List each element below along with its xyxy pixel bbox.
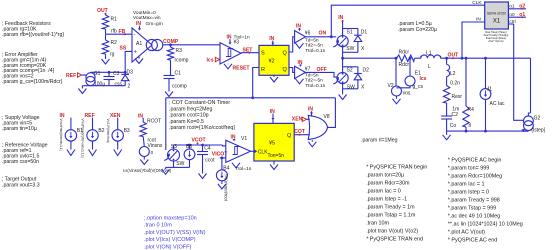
buffer U6 params: [305, 37, 326, 54]
svg-text:Ics: Ics: [207, 57, 214, 63]
ground below V1: [232, 163, 240, 168]
resistor Rdcr: [394, 49, 421, 67]
svg-text:B2: B2: [98, 128, 104, 134]
comment text: Feedback Resistors params: [2, 21, 64, 38]
svg-text:SET: SET: [243, 47, 254, 53]
wire switch node to S2: [342, 58, 344, 67]
svg-text:.param Co=220µ: .param Co=220µ: [398, 27, 437, 33]
svg-text:Rdcr: Rdcr: [399, 62, 410, 68]
wire Q to buffer U6: [289, 37, 295, 52]
svg-text:.tran 10m: .tran 10m: [366, 220, 389, 226]
switch S2 control curl: [333, 77, 339, 84]
wire OUT to J1: [484, 57, 487, 89]
simulation directives text: [144, 215, 206, 250]
svg-text:.param g_cs={100m/Rdcr}: .param g_cs={100m/Rdcr}: [2, 79, 63, 85]
wire L1 to OUT rail: [441, 57, 531, 59]
svg-text:R3: R3: [176, 48, 183, 54]
resistor Resr: [443, 86, 462, 113]
svg-text:Ics: Ics: [420, 76, 427, 82]
comparator U3 power stub: [228, 39, 231, 44]
ground below U2: [270, 75, 278, 82]
source B5 expression: [123, 168, 172, 173]
node COT wire: [294, 129, 310, 136]
inductor L2: [447, 65, 461, 87]
svg-text:IN: IN: [138, 113, 143, 119]
svg-text:vos: vos: [403, 90, 411, 96]
buffer U7: [295, 66, 311, 78]
wire OUT to R1: [105, 14, 107, 15]
wire V8 out to RESET rail: [328, 98, 336, 128]
svg-text:V8: V8: [324, 114, 330, 120]
svg-text:OUT: OUT: [97, 8, 109, 14]
svg-text:¥5: ¥5: [269, 141, 275, 147]
svg-text:V2: V2: [388, 83, 394, 89]
svg-text:REF: REF: [66, 73, 76, 79]
svg-text:VCOT: VCOT: [192, 137, 207, 143]
port XEN to V8: [292, 117, 310, 123]
source B1: [65, 118, 83, 150]
resistor R2: [102, 40, 117, 58]
svg-text:.plot V(ON) V(OFF): .plot V(ON) V(OFF): [144, 245, 192, 250]
voltage source Vinsns: [139, 147, 153, 157]
ground below Vinsns: [140, 157, 148, 165]
buffer U7 labels: [298, 60, 303, 67]
wire RESET to S3 control: [165, 98, 167, 150]
ground below S3 bracket: [162, 167, 174, 174]
svg-text:* PyQSPICE AC begin: * PyQSPICE AC begin: [448, 157, 502, 163]
svg-text:XEN: XEN: [292, 117, 303, 123]
wire ground rail: [447, 130, 529, 133]
node OFF wire: [305, 67, 337, 77]
svg-text:.param Tready = 1m: .param Tready = 1m: [366, 204, 415, 210]
svg-text:¥6: ¥6: [305, 30, 311, 36]
current source B4: [216, 158, 229, 182]
svg-text:ON: ON: [319, 31, 327, 37]
svg-text:SS: SS: [120, 46, 127, 52]
svg-text:css: css: [115, 82, 123, 88]
source B4 expression: [224, 174, 229, 201]
svg-text:2: 2: [128, 84, 131, 90]
svg-text:S1: S1: [347, 30, 353, 36]
wire IN to S1: [342, 21, 344, 29]
svg-text:ccot: ccot: [205, 158, 215, 164]
svg-text:{Istep}: {Istep}: [531, 128, 546, 134]
svg-text:XEN: XEN: [110, 113, 121, 119]
current source G2: [524, 115, 546, 133]
svg-text:rg: rg: [110, 52, 115, 58]
sampler X1: [485, 2, 509, 29]
source B1 expression: [59, 119, 63, 151]
pin ctrl wire: [508, 19, 515, 25]
svg-text:.param ccot=10p: .param ccot=10p: [169, 113, 209, 119]
comment text: COT Constant-ON Timer: [169, 100, 235, 131]
PyQSPICE AC text column: [448, 157, 523, 243]
svg-text:o0: o0: [509, 12, 515, 18]
wire FB to A1 inverting input: [106, 33, 133, 35]
svg-text:Td2=-5n: Td2=-5n: [305, 78, 323, 84]
svg-text:+: +: [134, 50, 138, 56]
comment text: Error Amplifier params: [2, 52, 63, 85]
svg-text:.plot V(OUT) V(SS) V(IN): .plot V(OUT) V(SS) V(IN): [144, 230, 206, 236]
svg-text:**.ac lin {1024*1024} 10 10Meg: **.ac lin {1024*1024} 10 10Meg: [448, 221, 523, 227]
wire RCOT to Vinsns: [143, 137, 163, 150]
wire RESET to R pin: [253, 68, 259, 98]
svg-text:.tran 0 10m: .tran 0 10m: [144, 223, 172, 229]
wire R3 to C1: [170, 60, 172, 76]
svg-text:IN: IN: [269, 36, 274, 42]
wire soft-start bottom rail: [82, 84, 125, 86]
svg-text:*.param Rdcr=100Meg: *.param Rdcr=100Meg: [448, 173, 502, 179]
source B3 expression: [106, 119, 110, 143]
ground below B4: [218, 182, 226, 189]
ground below B3: [114, 150, 122, 156]
svg-text:¥3: ¥3: [234, 39, 240, 45]
SR latch U2: [259, 45, 289, 75]
svg-text:VoutMin=0: VoutMin=0: [133, 10, 156, 16]
current source G1: [86, 71, 105, 88]
svg-text:o1: o1: [509, 4, 515, 10]
svg-text:S2: S2: [347, 68, 353, 74]
svg-text:V1: V1: [241, 136, 247, 142]
wire G2 to ground rail: [521, 129, 528, 133]
wire E1 to V2: [397, 86, 411, 88]
wire ctrl to G2 control: [514, 24, 524, 120]
svg-text:C2: C2: [452, 112, 459, 118]
svg-text:A1: A1: [136, 41, 142, 47]
svg-text:D2: D2: [363, 68, 370, 74]
ground below R2: [102, 57, 110, 64]
svg-text:SW: SW: [346, 46, 354, 52]
svg-text:.param rl=1Meg: .param rl=1Meg: [361, 137, 398, 143]
svg-text:Q: Q: [283, 51, 288, 57]
op-amp A1 labels: [133, 10, 163, 27]
svg-text:I=Ko*vout/rcot: I=Ko*vout/rcot: [224, 174, 229, 201]
svg-text:R4: R4: [468, 107, 475, 113]
svg-text:Vinsns: Vinsns: [148, 143, 163, 149]
ground below U5: [270, 161, 278, 170]
svg-text:Td=5n: Td=5n: [305, 37, 319, 43]
node IN above RCOT: [138, 113, 143, 119]
wire CLK label: [472, 0, 482, 6]
diode D2: [354, 67, 369, 91]
port REF to G1: [66, 73, 86, 79]
svg-text:ctrl: ctrl: [509, 19, 515, 25]
wire J1 to ground rail: [485, 99, 487, 131]
wire Resr to C2: [446, 103, 448, 116]
svg-text:* PyQSPICE AC end: * PyQSPICE AC end: [448, 237, 497, 243]
svg-text:COMP: COMP: [163, 39, 179, 45]
svg-text:J1: J1: [487, 87, 493, 93]
svg-text:R: R: [261, 67, 265, 73]
ground soft-start: [78, 86, 86, 94]
svg-text:B3: B3: [124, 128, 130, 134]
node SET wire: [241, 47, 259, 53]
node COMP: [163, 39, 179, 45]
capacitor C1: [164, 71, 187, 90]
current source B5: [184, 144, 195, 167]
svg-text:C1: C1: [175, 71, 182, 77]
port Ics to comparator: [207, 57, 221, 63]
svg-text:SW: SW: [347, 85, 355, 91]
wire OUT to L2: [445, 57, 448, 65]
svg-text:G2: G2: [534, 115, 541, 121]
source B2 expression: [81, 119, 85, 158]
wire R4 to ground rail: [465, 127, 467, 131]
node FB: [119, 29, 127, 35]
wire VCOT rail: [174, 144, 226, 147]
wire C4 to ground: [202, 155, 204, 172]
source B3: [112, 118, 130, 150]
switch S3 control curl: [164, 153, 170, 160]
capacitor C4: [197, 145, 215, 164]
node IN above S1: [338, 15, 343, 22]
svg-text:Ttol=1n: Ttol=1n: [235, 166, 251, 172]
ground below B1: [67, 150, 75, 156]
ground below A1: [135, 57, 143, 64]
svg-text:*.param Tstap = 999: *.param Tstap = 999: [448, 205, 496, 211]
ground below U6: [296, 43, 304, 48]
wire COMP from A1 output: [163, 43, 220, 46]
comment text: Target Output params: [2, 177, 40, 189]
comparator V1 param: [235, 166, 251, 172]
capacitor C2: [441, 112, 458, 129]
svg-text:char* Opt=np: char* Opt=np: [488, 39, 504, 43]
wire Rdcr right sense: [409, 57, 412, 76]
ground below B2: [89, 150, 97, 156]
wire R2 to ground: [105, 54, 107, 57]
one-shot U5: [254, 123, 294, 161]
svg-text:IN: IN: [227, 35, 232, 41]
wire VICOT: [220, 157, 226, 160]
wire ON to X1 CLK rail: [331, 5, 484, 37]
svg-text:¥7: ¥7: [305, 67, 311, 73]
svg-text:SW: SW: [176, 161, 184, 167]
switch S1: [337, 29, 358, 53]
svg-text:REF: REF: [85, 113, 95, 119]
node OUT (power): [448, 52, 460, 59]
node RESET label: [233, 65, 251, 71]
svg-text:Q: Q: [287, 133, 292, 139]
diode D3: [121, 69, 133, 89]
svg-text:.param Ko=0.5: .param Ko=0.5: [169, 119, 204, 125]
svg-text:Q: Q: [283, 67, 288, 73]
ground output rail: [443, 131, 451, 140]
svg-text:g_cs: g_cs: [413, 84, 424, 90]
svg-text:SERA v2020: SERA v2020: [487, 12, 506, 16]
wire V1 out to U5 CLK: [251, 150, 254, 152]
comparator U3 labels: [227, 35, 250, 46]
wire Qbar to buffer U7: [289, 68, 295, 73]
svg-text:*.param Tready = 998: *.param Tready = 998: [448, 197, 500, 203]
switch S2: [337, 67, 358, 91]
comment text: Supply Voltage params: [2, 115, 40, 132]
node SS at A1 +input: [120, 46, 127, 52]
ground below C4: [199, 172, 207, 179]
svg-text:*.plot AC V(out): *.plot AC V(out): [448, 229, 485, 235]
source B2: [87, 118, 105, 150]
switch S1 control curl: [333, 40, 339, 47]
svg-text:100µ: 100µ: [94, 82, 105, 88]
wire OUT to R4: [465, 57, 468, 106]
resistor R4: [463, 106, 474, 129]
switch S3: [168, 144, 190, 167]
ground below S2: [339, 89, 347, 100]
svg-text:.param tin=10µ: .param tin=10µ: [2, 126, 37, 132]
svg-text:RESET: RESET: [233, 65, 251, 71]
wire IN to RCOT: [142, 118, 144, 122]
svg-text:*.ac dec 49 10 10Meg: *.ac dec 49 10 10Meg: [448, 213, 500, 219]
buffer U7 params: [305, 72, 326, 89]
svg-text:* PyQSPICE TRAN end: * PyQSPICE TRAN end: [366, 236, 423, 242]
svg-text:L2: L2: [450, 71, 456, 77]
svg-text:OFF: OFF: [317, 67, 327, 73]
wire switch node to Rdcr: [343, 57, 394, 59]
wire COMP to R3: [170, 45, 172, 47]
svg-text:V=ref*min(V(IN)>uvlo,0,1,1): V=ref*min(V(IN)>uvlo,0,1,1): [81, 119, 85, 158]
comparator V1 labels: [231, 134, 248, 142]
svg-text:V=vin*min(time/tin,1,1): V=vin*min(time/tin,1,1): [59, 119, 63, 151]
svg-text:IN: IN: [296, 23, 301, 29]
diode D1: [354, 29, 367, 53]
node VCOT: [192, 137, 207, 144]
svg-text:.param rfb={(vout/ref-1)*rg}: .param rfb={(vout/ref-1)*rg}: [2, 32, 64, 38]
svg-text:.param freq=2Meg: .param freq=2Meg: [169, 106, 212, 112]
svg-text:D3: D3: [127, 69, 134, 75]
svg-text:.param Rdcr=30m: .param Rdcr=30m: [366, 180, 410, 186]
wire Rdcr left sense: [395, 57, 398, 86]
comparator V1: [226, 140, 251, 162]
node OUT (feedback top): [97, 8, 109, 15]
svg-text:RCOT: RCOT: [147, 118, 161, 124]
wire S1 to switch node: [341, 52, 344, 59]
svg-text:CLK: CLK: [472, 0, 482, 6]
buffer U6: [295, 30, 311, 43]
svg-text:C3: C3: [113, 71, 120, 77]
one-shot U5 IN label: [270, 109, 275, 123]
comparator U3: [220, 43, 241, 64]
or gate V8: [308, 114, 330, 139]
ground below V8: [308, 140, 316, 147]
svg-text:Ttol=0.1n: Ttol=0.1n: [305, 48, 325, 54]
svg-text:rfb: rfb: [111, 29, 117, 35]
svg-text:*.param Iac = 1: *.param Iac = 1: [448, 181, 485, 187]
ground below U7: [296, 79, 304, 84]
ground below V2: [393, 96, 401, 104]
svg-text:X1: X1: [493, 19, 501, 25]
svg-text:; COT Constant-ON Timer: ; COT Constant-ON Timer: [169, 100, 230, 106]
wire R1 to FB node: [105, 29, 107, 34]
wire SS from A1 to soft-start node: [125, 51, 132, 72]
wire SS rail: [91, 71, 127, 74]
param rl text: [361, 137, 398, 143]
or gate V8 IN label: [308, 107, 313, 117]
svg-text:S: S: [261, 51, 265, 57]
svg-text:.param Tstap = 1.1m: .param Tstap = 1.1m: [366, 212, 416, 218]
wire RESET rail: [166, 96, 336, 99]
wire C2 to ground rail: [446, 119, 448, 131]
svg-text:B5: B5: [186, 144, 192, 150]
svg-text:.param Iac = 0: .param Iac = 0: [366, 188, 401, 194]
node VICOT: [212, 151, 228, 157]
ground below U3: [224, 64, 232, 69]
wire OUT to X1 IN: [461, 16, 485, 59]
sampler X1 attribute text: [484, 30, 509, 43]
resistor R1: [102, 15, 117, 35]
voltage source V2: [388, 83, 411, 97]
svg-text:V=2.5*(time>ton): V=2.5*(time>ton): [106, 119, 110, 143]
wire FB to R2: [105, 34, 107, 40]
svg-text:.plot tran V(out) V(o2): .plot tran V(out) V(o2): [366, 228, 418, 234]
svg-text:Ttol=0.1n: Ttol=0.1n: [305, 83, 325, 89]
wire L2 to Resr: [446, 77, 448, 86]
svg-text:.param rcot={1/Ko/ccot/freq}: .param rcot={1/Ko/ccot/freq}: [169, 125, 235, 131]
op-amp A1: [132, 28, 163, 62]
svg-text:0: 0: [151, 150, 154, 155]
svg-text:* PyQSPICE TRAN begin: * PyQSPICE TRAN begin: [366, 164, 427, 170]
ground below C1: [165, 90, 173, 97]
svg-text:*.param Istep = 0: *.param Istep = 0: [448, 189, 489, 195]
svg-text:0.2n: 0.2n: [450, 80, 460, 86]
svg-text:.param vout=3.3: .param vout=3.3: [2, 182, 40, 188]
svg-text:C4: C4: [204, 145, 211, 151]
svg-text:.param ton=20µ: .param ton=20µ: [366, 172, 404, 178]
svg-text:D1: D1: [361, 30, 368, 36]
svg-text:Td=5n: Td=5n: [305, 72, 319, 78]
inductor L1: [421, 50, 441, 70]
svg-text:rcomp: rcomp: [175, 58, 189, 64]
svg-text:Resr: Resr: [452, 94, 463, 100]
source B1 label: [60, 113, 65, 119]
svg-text:;.option maxstep=10n: ;.option maxstep=10n: [144, 215, 197, 221]
svg-text:R1: R1: [111, 17, 118, 23]
svg-text:IN: IN: [476, 16, 481, 22]
op-amp A1 power stub: [138, 26, 141, 31]
comment text: Reference Voltage params: [2, 143, 48, 166]
svg-text:Gm=gm: Gm=gm: [146, 21, 163, 27]
resistor RCOT: [140, 118, 161, 143]
svg-text:R2: R2: [111, 40, 118, 46]
svg-text:Ton=5n: Ton=5n: [268, 153, 285, 159]
resistor R3: [167, 47, 188, 64]
svg-text:Co: Co: [450, 123, 457, 129]
pin o1 wire: [508, 4, 526, 10]
svg-text:IN: IN: [136, 21, 141, 27]
node ON wire: [305, 31, 336, 39]
params L Co: [398, 21, 437, 33]
wire C1 to ground: [168, 79, 170, 90]
svg-text:Td2=-5n: Td2=-5n: [305, 43, 323, 49]
svg-text:L1: L1: [426, 50, 432, 56]
svg-text:S3: S3: [171, 144, 177, 150]
svg-text:.param Istep = -1: .param Istep = -1: [366, 196, 407, 202]
svg-text:Rdcr: Rdcr: [399, 49, 410, 55]
svg-text:AC Iac: AC Iac: [490, 101, 506, 107]
current source J1: [480, 87, 505, 108]
PyQSPICE TRAN text column: [366, 164, 427, 242]
source B3 label: [110, 113, 121, 119]
latch U2 IN label: [269, 36, 274, 45]
svg-text:¥2: ¥2: [269, 59, 275, 65]
buffer U6 labels: [296, 23, 301, 31]
svg-text:rl: rl: [469, 123, 472, 129]
pin o0 wire: [508, 12, 526, 18]
svg-text:IN: IN: [308, 107, 313, 113]
svg-text:*.param ton= 999: *.param ton= 999: [448, 165, 490, 171]
source B2 label: [85, 113, 95, 119]
wire OUT to G2: [528, 58, 530, 116]
capacitor C3: [104, 71, 123, 87]
dependent source E1: [405, 71, 427, 90]
